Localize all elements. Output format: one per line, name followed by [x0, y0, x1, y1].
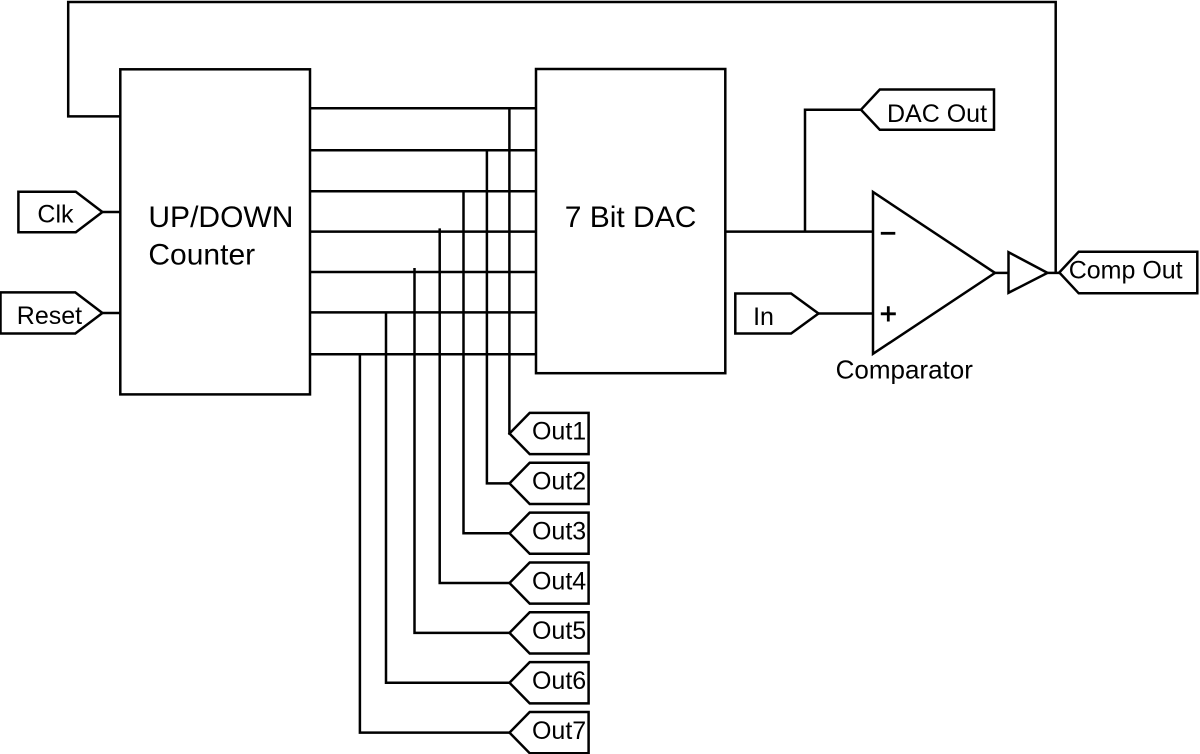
flag Out3	[510, 513, 589, 554]
flag Out7	[510, 712, 589, 753]
wire comparator output to buffer	[995, 272, 1009, 275]
svg-text:Clk: Clk	[37, 200, 74, 228]
flag Reset input	[1, 292, 103, 333]
wire branch to Out4	[440, 228, 510, 583]
wire branch DAC Out node	[805, 110, 861, 232]
flag Clk input	[18, 192, 102, 233]
svg-text:Comparator: Comparator	[836, 355, 974, 385]
flag Comp Out	[1059, 252, 1197, 294]
svg-text:UP/DOWN: UP/DOWN	[148, 201, 293, 234]
wire branch to Out6	[386, 312, 510, 682]
buffer U4 triangle	[1009, 252, 1048, 293]
svg-text:Counter: Counter	[148, 238, 255, 271]
wire bus bit4 counter to DAC	[310, 230, 536, 233]
block U1 UP/DOWN Counter	[120, 69, 310, 394]
wire branch to Out3	[464, 191, 510, 533]
svg-text:DAC Out: DAC Out	[887, 100, 987, 128]
wire bus bit7 counter to DAC	[310, 353, 536, 356]
wire branch to Out1	[508, 108, 511, 433]
wire bus bit2 counter to DAC	[310, 149, 536, 152]
svg-text:Out1: Out1	[532, 418, 586, 446]
flag Out2	[510, 463, 589, 504]
wire DAC output to comparator inverting input	[725, 230, 873, 233]
wire Clk flag to counter	[102, 211, 120, 214]
flag In input	[735, 294, 818, 334]
svg-text:In: In	[753, 303, 774, 331]
flag Out6	[510, 662, 589, 703]
svg-text:Out3: Out3	[532, 517, 586, 545]
comparator U3 triangle	[873, 192, 995, 354]
flag DAC Out	[861, 90, 994, 130]
flag Out5	[510, 612, 589, 653]
svg-text:Out7: Out7	[532, 717, 586, 745]
wire bus bit5 counter to DAC	[310, 271, 536, 274]
svg-text:Out6: Out6	[532, 667, 586, 695]
comparator U3 non-inverting input plus sign	[881, 306, 896, 321]
svg-text:Out4: Out4	[532, 567, 586, 595]
svg-text:7 Bit DAC: 7 Bit DAC	[565, 201, 697, 234]
wire feedback loop from Comp Out node to UP/DOWN counter input	[68, 2, 1055, 273]
svg-text:Out2: Out2	[532, 468, 586, 496]
wire bus bit6 counter to DAC	[310, 311, 536, 314]
wire branch to Out7	[360, 354, 510, 732]
svg-text:Reset: Reset	[17, 302, 82, 330]
flag Out4	[510, 562, 589, 603]
wire branch to Out5	[415, 268, 510, 633]
comparator U3 inverting input minus sign	[881, 232, 896, 235]
wire In flag to comparator non-inverting input	[819, 312, 874, 315]
svg-text:Comp Out: Comp Out	[1069, 257, 1183, 285]
wire branch to Out2	[487, 150, 510, 483]
wire buffer output to Comp Out node	[1048, 272, 1060, 275]
wire Reset flag to counter	[102, 312, 120, 315]
block U2 7 Bit DAC	[536, 69, 725, 373]
wire bus bit3 counter to DAC	[310, 190, 536, 193]
flag Out1	[510, 413, 589, 454]
svg-text:Out5: Out5	[532, 617, 586, 645]
wire bus bit1 counter to DAC	[310, 107, 536, 110]
